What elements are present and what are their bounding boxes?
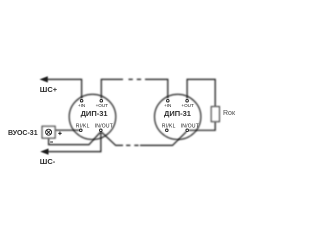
svg-text:+OUT: +OUT	[96, 103, 109, 108]
svg-text:+OUT: +OUT	[181, 103, 194, 108]
svg-text:+IN: +IN	[78, 103, 85, 108]
svg-text:ШС+: ШС+	[40, 85, 58, 94]
svg-text:RI/KL: RI/KL	[76, 123, 90, 129]
svg-text:ДИП-31: ДИП-31	[81, 109, 108, 118]
svg-text:ШС-: ШС-	[40, 157, 56, 166]
svg-text:IN/OUT: IN/OUT	[181, 123, 199, 129]
svg-text:IN/OUT: IN/OUT	[95, 123, 113, 129]
svg-text:+IN: +IN	[164, 103, 171, 108]
svg-text:Rок: Rок	[223, 110, 236, 117]
svg-text:ДИП-31: ДИП-31	[164, 109, 191, 118]
svg-text:RI/KL: RI/KL	[162, 123, 176, 129]
svg-text:ВУОС-31: ВУОС-31	[8, 130, 38, 137]
